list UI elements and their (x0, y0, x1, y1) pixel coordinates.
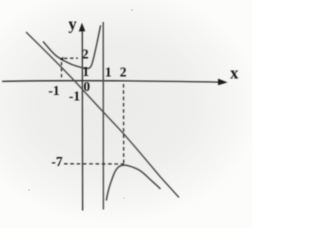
svg-text:1: 1 (82, 64, 89, 79)
svg-text:x: x (230, 63, 239, 82)
x-axis (2, 81, 219, 82)
x-axis arrowhead (218, 79, 228, 86)
oblique asymptote line (26, 32, 179, 198)
dashed horizontal projection y=2 (64, 57, 78, 59)
curve upper-left branch (43, 25, 101, 68)
svg-text:y: y (68, 15, 77, 34)
vertical asymptote x=1 (102, 22, 104, 210)
svg-text:2: 2 (82, 46, 89, 61)
speck noise bottom (123, 197, 125, 199)
svg-text:-1: -1 (48, 83, 59, 98)
svg-text:2: 2 (120, 65, 127, 80)
y-axis arrowhead (79, 23, 86, 32)
dot marking point (-1,2) on curve (60, 57, 64, 61)
svg-text:-1: -1 (69, 89, 80, 104)
dashed vertical projection x=2 (123, 84, 125, 164)
speck noise top (131, 9, 133, 11)
svg-text:-7: -7 (51, 154, 62, 169)
curve lower-right branch (106, 165, 160, 200)
speck noise left (28, 189, 30, 191)
dashed horizontal projection y=-7 (64, 163, 124, 165)
y-axis (81, 30, 83, 211)
svg-text:0: 0 (83, 79, 90, 94)
dashed vertical projection x=-1 (61, 62, 63, 81)
svg-text:1: 1 (105, 65, 112, 80)
